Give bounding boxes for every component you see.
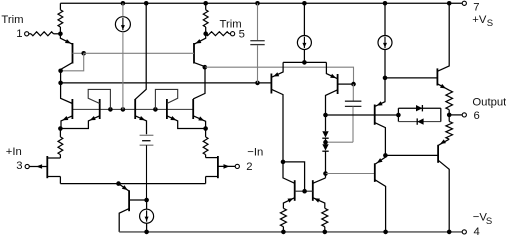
svg-text:2: 2 [246,161,252,173]
svg-text:7: 7 [473,1,479,13]
svg-text:1: 1 [16,28,22,40]
svg-text:5: 5 [239,29,245,41]
svg-text:S: S [486,216,492,227]
svg-text:3: 3 [16,160,22,172]
svg-text:+V: +V [472,14,487,26]
svg-text:6: 6 [474,110,480,122]
svg-text:Output: Output [472,97,506,109]
svg-text:−In: −In [247,146,263,158]
svg-text:+In: +In [6,146,22,158]
svg-text:4: 4 [474,226,480,236]
svg-text:S: S [487,18,493,29]
svg-text:Trim: Trim [1,14,23,26]
